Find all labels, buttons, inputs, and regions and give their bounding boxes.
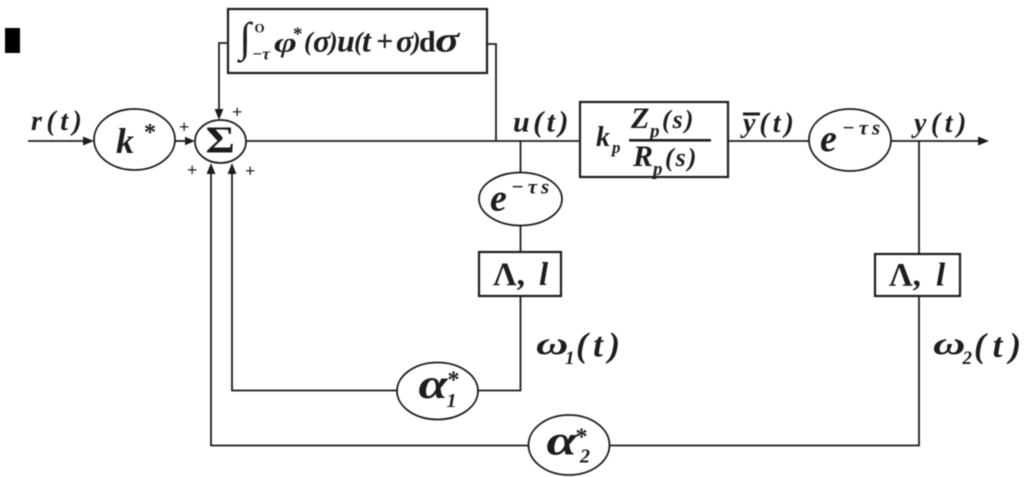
wire node y(t) down to right filter xyxy=(918,141,920,254)
svg-text:*: * xyxy=(448,367,460,393)
wire k* to summer xyxy=(175,140,189,142)
wire input r(t) arrow line xyxy=(28,140,87,142)
arrowhead input into k* xyxy=(83,137,94,146)
arrowhead α1* into summer bottom xyxy=(228,163,237,174)
label Λ,l inside left filter xyxy=(493,257,549,293)
arrowhead k* into summer xyxy=(185,137,195,145)
gain block α2* ellipse xyxy=(529,415,610,475)
svg-text:(s): (s) xyxy=(662,105,695,134)
wire delay to output y(t) xyxy=(891,140,980,142)
label r(t) xyxy=(31,106,86,137)
svg-text:p: p xyxy=(610,138,621,157)
plant denominator Rp(s) xyxy=(632,140,698,180)
svg-text:*: * xyxy=(144,120,156,146)
label k* inside gain xyxy=(116,120,156,161)
svg-text:−τ: −τ xyxy=(252,45,270,64)
svg-text:ω: ω xyxy=(933,326,965,361)
wire integral box right stub down to u(t) line xyxy=(487,44,496,141)
svg-text:+: + xyxy=(376,25,393,58)
plant fraction bar xyxy=(629,139,711,142)
arrowhead integral into summer top xyxy=(215,109,224,120)
wire left delay to left filter xyxy=(520,226,522,253)
label kp inside plant box xyxy=(596,122,621,157)
wire plant to delay xyxy=(728,140,810,142)
label e^-τs inside left delay xyxy=(490,175,553,220)
label Λ,l inside right filter xyxy=(889,258,946,294)
svg-text:Z: Z xyxy=(630,102,649,135)
delay block e^-τs left ellipse xyxy=(479,173,562,226)
wire integral box left stub xyxy=(219,43,228,113)
plus sign bottom left of summer xyxy=(187,160,197,180)
svg-text:u(t): u(t) xyxy=(513,106,572,139)
svg-text:Λ,: Λ, xyxy=(493,257,525,293)
svg-text:σ: σ xyxy=(435,20,460,60)
label ω1(t) xyxy=(536,326,626,370)
svg-text:Λ,: Λ, xyxy=(889,258,921,294)
label ω2(t) xyxy=(933,326,1024,369)
svg-text:α: α xyxy=(547,417,578,464)
svg-text:u: u xyxy=(337,23,355,59)
plant numerator Zp(s) xyxy=(630,102,695,142)
summing junction Σ ellipse xyxy=(195,120,246,163)
plus sign top right of summer xyxy=(232,102,242,122)
wire α2* left and up to summer xyxy=(211,170,529,446)
svg-text:p: p xyxy=(651,159,663,180)
gain block α1* ellipse xyxy=(397,363,478,420)
arrowhead α2* into summer bottom xyxy=(207,163,216,174)
svg-text:k: k xyxy=(596,122,610,153)
wire left filter down and left to α1* xyxy=(478,296,521,391)
plant block kp Zp/Rp box xyxy=(580,102,728,177)
svg-text:e: e xyxy=(490,178,507,220)
plus sign left of summer xyxy=(179,117,189,137)
svg-text:+: + xyxy=(179,117,189,137)
svg-text:O: O xyxy=(255,21,265,36)
wire right filter down and left to α2* xyxy=(610,296,919,446)
wire α1* left and up to summer xyxy=(232,170,397,391)
label u(t) above line xyxy=(513,106,572,139)
svg-text:R: R xyxy=(632,140,653,173)
wire u(t) node down to left delay xyxy=(520,141,522,173)
artifact black box top-left xyxy=(5,28,20,53)
label α1* inside gain xyxy=(419,362,460,412)
svg-text:−τs: −τs xyxy=(511,175,553,199)
filter block Λ,l right box xyxy=(875,254,960,296)
svg-text:y(t): y(t) xyxy=(911,108,971,139)
filter block Λ,l left box xyxy=(479,252,561,296)
label y(t) output xyxy=(911,108,971,139)
integral formula inside integral block xyxy=(237,16,460,64)
wire summer to plant block xyxy=(246,140,580,142)
label Σ inside summer xyxy=(206,119,235,161)
svg-text:α: α xyxy=(419,362,449,408)
arrowhead output y(t) xyxy=(978,137,989,146)
svg-text:e: e xyxy=(820,118,837,160)
svg-text:(t): (t) xyxy=(974,326,1024,365)
gain block k* ellipse xyxy=(94,109,175,170)
svg-text:d: d xyxy=(419,26,436,59)
svg-text:1: 1 xyxy=(565,348,575,369)
svg-text:l: l xyxy=(539,257,549,293)
label e^-τs inside right delay xyxy=(820,116,884,161)
svg-text:Σ: Σ xyxy=(206,119,235,161)
svg-text:l: l xyxy=(936,258,946,294)
svg-text:*: * xyxy=(293,24,303,45)
svg-text:−τs: −τs xyxy=(842,116,884,140)
svg-text:(s): (s) xyxy=(665,143,698,172)
svg-text:+: + xyxy=(232,102,242,122)
svg-text:k: k xyxy=(116,121,134,161)
delay block e^-τs right ellipse xyxy=(809,109,891,171)
svg-text:t: t xyxy=(362,23,372,59)
svg-text:+: + xyxy=(245,161,255,181)
plus sign bottom right of summer xyxy=(245,161,255,181)
integral block box xyxy=(228,9,487,73)
svg-text:*: * xyxy=(576,424,588,450)
svg-text:+: + xyxy=(187,160,197,180)
label α2* inside gain xyxy=(547,417,591,467)
svg-text:r(t): r(t) xyxy=(31,106,86,137)
svg-text:2: 2 xyxy=(962,348,973,369)
svg-text:p: p xyxy=(648,121,660,142)
label ȳ(t) with overbar xyxy=(740,108,798,139)
svg-text:(t): (t) xyxy=(576,326,626,365)
svg-text:ω: ω xyxy=(536,326,568,361)
